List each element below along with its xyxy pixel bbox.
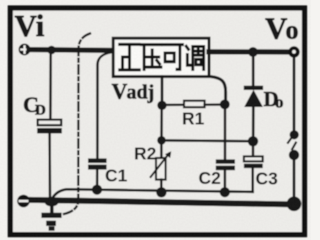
wire C1 to ground line bbox=[96, 170, 99, 190]
wire regulator out pin curve to R1/C2 node bbox=[211, 77, 226, 100]
node C1/ground line bbox=[92, 185, 102, 195]
regulator box U1 bbox=[113, 38, 209, 76]
node output rail corner bbox=[287, 197, 302, 212]
terminal - (input minus) bbox=[17, 195, 30, 208]
node R2 top / adj line bbox=[157, 136, 166, 145]
diode Do bbox=[244, 86, 263, 107]
wire Vadj pin bbox=[161, 77, 164, 106]
wire diode branch upper bbox=[252, 52, 255, 86]
wire Vadj node to R2 top bbox=[160, 105, 163, 140]
node R2 bottom / ground line bbox=[156, 187, 166, 197]
node input/CD junction bbox=[47, 46, 56, 55]
wire C3 top bbox=[252, 141, 255, 156]
wire C3 to ground line bbox=[251, 168, 254, 192]
ground line thin bbox=[53, 189, 253, 198]
switch S bbox=[288, 130, 299, 160]
node output/diode junction bbox=[248, 47, 258, 57]
node adj/diode/C3 bbox=[248, 136, 258, 146]
wire CD lower bbox=[48, 133, 51, 197]
wire R1 left lead bbox=[162, 104, 184, 106]
terminal Vo (ring) bbox=[288, 46, 299, 57]
wire diode branch lower bbox=[252, 107, 255, 137]
label Vo bbox=[265, 11, 299, 46]
wire input top rail bbox=[29, 47, 114, 53]
capacitor CD bbox=[37, 120, 62, 134]
capacitor C3 bbox=[244, 156, 263, 168]
wire C2 to ground line bbox=[224, 170, 227, 191]
wire switch to rail bbox=[293, 160, 296, 199]
label 正压可调 bbox=[120, 44, 204, 70]
node R1/C2 bbox=[220, 100, 230, 110]
wire adj line R2 to diode/C3 node bbox=[162, 139, 254, 142]
ground rail bottom thick bbox=[26, 200, 293, 205]
terminal + (input plus) bbox=[19, 44, 31, 56]
boundary dash-dot line bbox=[64, 34, 90, 215]
label Do bbox=[264, 87, 284, 111]
wire C2 branch bbox=[224, 104, 227, 159]
label CD bbox=[23, 92, 46, 119]
node ground junction bbox=[45, 197, 59, 207]
wire C1 branch from input rail bbox=[97, 52, 111, 158]
wire regulator output rail bbox=[209, 49, 290, 54]
capacitor C2 bbox=[216, 159, 235, 170]
capacitor C1 bbox=[88, 158, 107, 169]
wire R1 right lead bbox=[205, 103, 221, 105]
resistor R1 bbox=[184, 101, 205, 108]
wire output to switch bbox=[293, 58, 296, 132]
ground symbol bbox=[41, 200, 61, 231]
wire CD upper bbox=[49, 50, 52, 120]
node Vadj/R1 bbox=[157, 101, 166, 110]
node C2/ground line bbox=[220, 187, 230, 197]
label Vadj bbox=[112, 79, 155, 104]
potentiometer R2 bbox=[151, 140, 172, 192]
